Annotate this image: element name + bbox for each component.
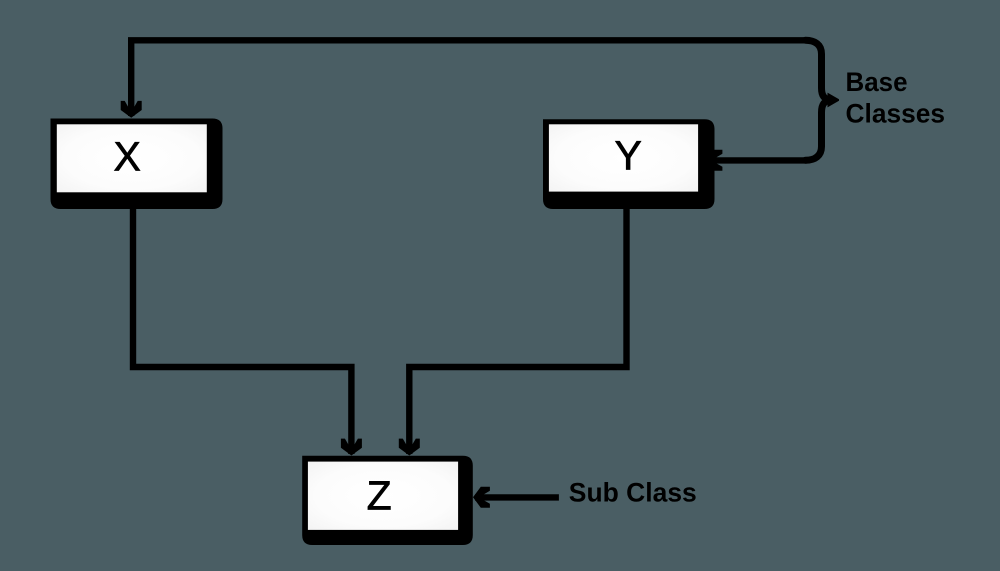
svg-text:X: X <box>114 133 141 179</box>
svg-text:Sub Class: Sub Class <box>569 478 697 508</box>
svg-text:Base: Base <box>846 67 908 97</box>
svg-text:Z: Z <box>367 472 392 518</box>
svg-text:Classes: Classes <box>846 98 946 128</box>
svg-text:Y: Y <box>615 133 642 179</box>
